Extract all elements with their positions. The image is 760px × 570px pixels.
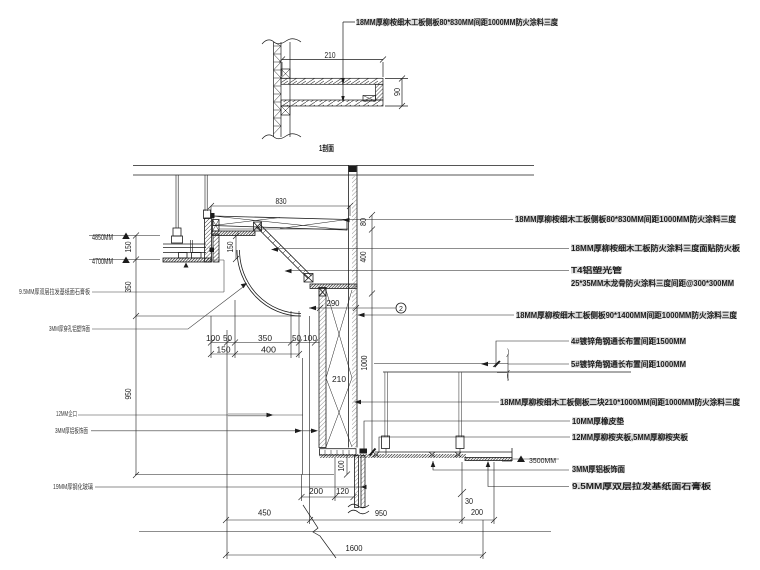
svg-text:4#镀锌角钢通长布置间距1500MM: 4#镀锌角钢通长布置间距1500MM [571, 336, 686, 346]
svg-text:50: 50 [223, 334, 233, 343]
lower ceiling carrier line [375, 451, 512, 453]
svg-text:350: 350 [124, 281, 133, 292]
box column top cap [349, 166, 357, 172]
frame top line [135, 474, 334, 476]
glass dim 100 [346, 455, 348, 475]
svg-text:830: 830 [276, 197, 287, 206]
glass frame right strip [361, 456, 365, 508]
svg-text:210: 210 [332, 375, 347, 384]
leader: glass label [95, 486, 366, 488]
cove dim row1 line [211, 342, 319, 344]
dim 30 tick [458, 489, 466, 497]
rubber pad block [360, 449, 368, 454]
svg-text:3MM厚铝板饰面: 3MM厚铝板饰面 [55, 426, 88, 435]
leader: plywood [379, 437, 570, 452]
left dim link line 350 [136, 315, 301, 317]
svg-text:18MM厚柳桉细木工板防火涂料三度面贴防火板: 18MM厚柳桉细木工板防火涂料三度面贴防火板 [571, 243, 741, 253]
lower ceiling end [502, 448, 512, 461]
text density underlays [356, 19, 740, 490]
diagonal strut [256, 224, 312, 279]
svg-text:25*35MM木龙骨防火涂料三度间距@300*300MM: 25*35MM木龙骨防火涂料三度间距@300*300MM [571, 278, 734, 288]
svg-text:210: 210 [325, 51, 336, 60]
svg-text:290: 290 [327, 299, 341, 308]
leader: label5 side board [358, 314, 514, 316]
dim 90 line [401, 79, 403, 107]
panel end connector dot [211, 213, 215, 218]
box left wall top block [319, 288, 326, 296]
detail bubble 2 [396, 303, 406, 313]
dim 200 bottom [462, 519, 494, 521]
svg-text:100: 100 [303, 334, 318, 343]
angle steel runner line [383, 371, 631, 373]
svg-text:18MM厚柳桉细木工板侧板80*830MM间距1000MM防: 18MM厚柳桉细木工板侧板80*830MM间距1000MM防火涂料三度 [356, 17, 559, 27]
svg-text:120: 120 [336, 487, 350, 496]
wall bottom break line [262, 134, 301, 139]
shelf angle piece [363, 96, 376, 102]
gypsum board band 4700 [163, 258, 211, 262]
left dim chain line [135, 236, 137, 476]
elevation triangle 4700 [122, 257, 130, 264]
box bottom board [320, 449, 357, 455]
ceiling band 4850 [212, 231, 255, 236]
dim 210 box [331, 374, 347, 384]
svg-text:400: 400 [261, 346, 277, 355]
left dim ticks [133, 233, 139, 479]
structural slab line lower [133, 174, 534, 176]
top label leader [343, 22, 355, 101]
leader: label8 twin boards [355, 401, 499, 403]
glass frame left strip [355, 456, 359, 508]
hanger screw rods [191, 240, 193, 253]
strut top block [254, 222, 262, 231]
wall finish line [289, 42, 291, 137]
svg-text:T4铝塑光管: T4铝塑光管 [571, 265, 622, 275]
svg-text:2: 2 [399, 306, 403, 313]
svg-text:100: 100 [206, 334, 221, 343]
svg-text:1600: 1600 [346, 544, 364, 553]
svg-text:4700MM: 4700MM [92, 257, 113, 266]
leader: label3 t4 tube [287, 270, 569, 272]
hanger clip left [173, 228, 181, 236]
break zigzag [303, 505, 336, 558]
dim 830 line [211, 205, 350, 207]
level tick arrow [184, 263, 189, 268]
elevation line 4700 [89, 259, 160, 261]
carrier channel left ceiling [163, 243, 206, 245]
svg-text:200: 200 [471, 508, 483, 517]
svg-text:950: 950 [124, 388, 133, 399]
svg-text:100: 100 [337, 460, 346, 471]
svg-text:150: 150 [226, 241, 235, 252]
leader: label7 angle5 [497, 354, 569, 381]
glass bottom break [348, 504, 369, 508]
furring channel A [179, 253, 188, 259]
step top blocks [213, 220, 220, 232]
leader: rubber pad [364, 421, 570, 452]
svg-text:150: 150 [124, 241, 133, 252]
junction block upper [281, 69, 290, 78]
furring channel B [192, 253, 202, 259]
elevation line 4850 [89, 235, 160, 237]
hanger bracket at step [204, 210, 211, 219]
leader: gypsum left label [92, 260, 224, 292]
junction block lower [281, 106, 290, 115]
svg-text:50: 50 [292, 334, 302, 343]
svg-text:9.5MM厚双层拉发基纸面石膏板: 9.5MM厚双层拉发基纸面石膏板 [19, 287, 90, 296]
svg-text:3500MM: 3500MM [529, 458, 556, 465]
dim 290 line [309, 307, 396, 309]
svg-text:350: 350 [258, 334, 273, 343]
floor edge line [139, 531, 551, 533]
svg-text:3MM厚铝板饰面: 3MM厚铝板饰面 [572, 464, 625, 474]
elevation triangle 4850 [122, 233, 130, 240]
svg-text:30: 30 [465, 497, 473, 506]
svg-text:18MM厚柳桉细木工板侧板90*1400MM间距1000MM: 18MM厚柳桉细木工板侧板90*1400MM间距1000MM防火涂料三度 [516, 310, 738, 320]
leader: perforated alu label [92, 287, 243, 329]
box X brace [326, 290, 352, 447]
svg-text:18MM厚柳桉细木工板侧板80*830MM间距1000MM防: 18MM厚柳桉细木工板侧板80*830MM间距1000MM防火涂料三度 [515, 214, 737, 224]
leader: label2 strut [274, 248, 569, 250]
leader: alu face bottom [433, 461, 569, 470]
step dim 150 [235, 236, 237, 259]
svg-text:450: 450 [258, 509, 272, 518]
svg-text:12MM企口: 12MM企口 [56, 409, 77, 418]
leader: label1 top board [345, 219, 513, 221]
cove top line [219, 228, 348, 230]
box column hatch [352, 176, 357, 448]
hanger clip B [456, 436, 464, 449]
svg-text:4850MM: 4850MM [92, 233, 113, 242]
hanger rod B [459, 372, 461, 437]
MAIN DRAWING [133, 165, 631, 514]
wall stud strip [273, 42, 275, 137]
dim 210 line [282, 59, 383, 61]
hanger rod left [176, 175, 178, 228]
cove dim extensions [211, 300, 310, 559]
joint marks [373, 452, 461, 457]
leader: 12mm tongue label [78, 414, 303, 416]
svg-text:400: 400 [359, 251, 368, 262]
rod feet [386, 449, 460, 455]
wall ladder hatch [274, 46, 282, 126]
svg-text:10MM厚橡皮垫: 10MM厚橡皮垫 [572, 416, 624, 426]
bottom extension lines [462, 462, 494, 559]
svg-text:950: 950 [375, 509, 387, 518]
hanger clip A [382, 436, 390, 449]
dim 450-950 line [226, 519, 462, 521]
svg-text:18MM厚柳桉细木工板侧板二块210*1000MM间距100: 18MM厚柳桉细木工板侧板二块210*1000MM间距1000MM防火涂料三度 [500, 397, 741, 407]
SECTION DETAIL 1 (top) [262, 22, 408, 139]
svg-text:1剖面: 1剖面 [319, 143, 334, 153]
svg-text:19MM厚钢化玻璃: 19MM厚钢化玻璃 [53, 482, 93, 491]
sloped top panel [213, 216, 347, 230]
box column walls [348, 165, 350, 448]
curved cove panel arc outer [237, 250, 301, 316]
leader: label6 angle4 [496, 341, 569, 364]
dim 200-120 line [302, 496, 354, 498]
box left wall [319, 288, 326, 448]
elevation triangle 3500 [517, 456, 525, 463]
cove bottom board band [310, 284, 357, 289]
shelf top board [281, 78, 383, 84]
svg-text:1000: 1000 [360, 355, 369, 370]
svg-text:90: 90 [393, 88, 402, 96]
step connector dot [210, 248, 215, 253]
svg-text:200: 200 [309, 487, 324, 496]
leader: alu panel left label [91, 430, 316, 432]
lower ceiling band B [465, 458, 512, 461]
dim 80-400-1000 line [371, 215, 373, 452]
shelf bottom board [281, 100, 383, 106]
svg-text:150: 150 [217, 346, 232, 355]
DIMENSIONS AND LEADERS [78, 203, 570, 559]
svg-text:80: 80 [359, 218, 368, 226]
hanger rod mid [205, 175, 207, 211]
wall top break line [262, 39, 301, 44]
shelf end board [376, 84, 384, 100]
level line 3500 [511, 458, 559, 460]
svg-text:12MM厚柳桉夹板,5MM厚柳桉夹板: 12MM厚柳桉夹板,5MM厚柳桉夹板 [572, 432, 689, 442]
hanger rod A [385, 372, 387, 437]
svg-text:9.5MM厚双层拉发基纸面石膏板: 9.5MM厚双层拉发基纸面石膏板 [572, 481, 712, 491]
svg-text:5#镀锌角钢通长布置间距1000MM: 5#镀锌角钢通长布置间距1000MM [571, 359, 686, 369]
step side board A [205, 218, 212, 262]
strut bottom block [304, 274, 313, 283]
curved cove panel arc inner [240, 250, 302, 314]
step side board B [213, 234, 219, 262]
leader: gypsum bottom [488, 462, 569, 487]
svg-text:3MM厚穿孔铝塑饰面: 3MM厚穿孔铝塑饰面 [49, 324, 90, 333]
cove dim row2 line [211, 353, 299, 355]
dim 1600 line [226, 554, 483, 556]
structural slab line upper [133, 165, 534, 167]
